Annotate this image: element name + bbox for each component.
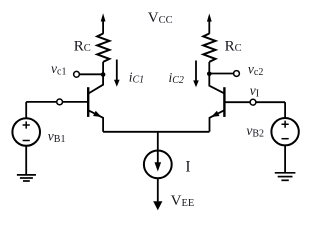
resistor RC1 [97, 34, 109, 62]
wire base Q2 [225, 101, 285, 103]
node dot collector Q2 [207, 72, 212, 77]
current arrow iC2 [193, 61, 199, 88]
VCC arrow right [207, 14, 212, 34]
wire resistor RC1 bottom lead [102, 62, 104, 75]
current arrow iC1 [114, 60, 120, 87]
current source I [144, 132, 172, 202]
wire emitter bus [103, 131, 209, 133]
node dot collector Q1 [101, 72, 106, 77]
wire vc1 stub [79, 73, 101, 75]
terminal input vI [250, 99, 256, 105]
ground left [17, 175, 36, 181]
transistor Q1 [88, 75, 103, 132]
voltage source vB2 [271, 102, 298, 172]
ground right [275, 173, 296, 181]
VCC arrow left [101, 13, 106, 34]
voltage source vB1 [12, 102, 40, 174]
wire base Q1 [26, 101, 87, 103]
terminal input left [57, 99, 63, 105]
svg-text:I: I [185, 159, 190, 176]
VEE arrow [153, 201, 162, 210]
transistor Q2 [209, 74, 224, 132]
terminal vc2 [234, 71, 240, 77]
terminal vc1 [74, 71, 80, 77]
wire resistor RC2 bottom lead [208, 62, 210, 74]
resistor RC2 [203, 34, 215, 62]
wire vc2 stub [211, 73, 233, 75]
